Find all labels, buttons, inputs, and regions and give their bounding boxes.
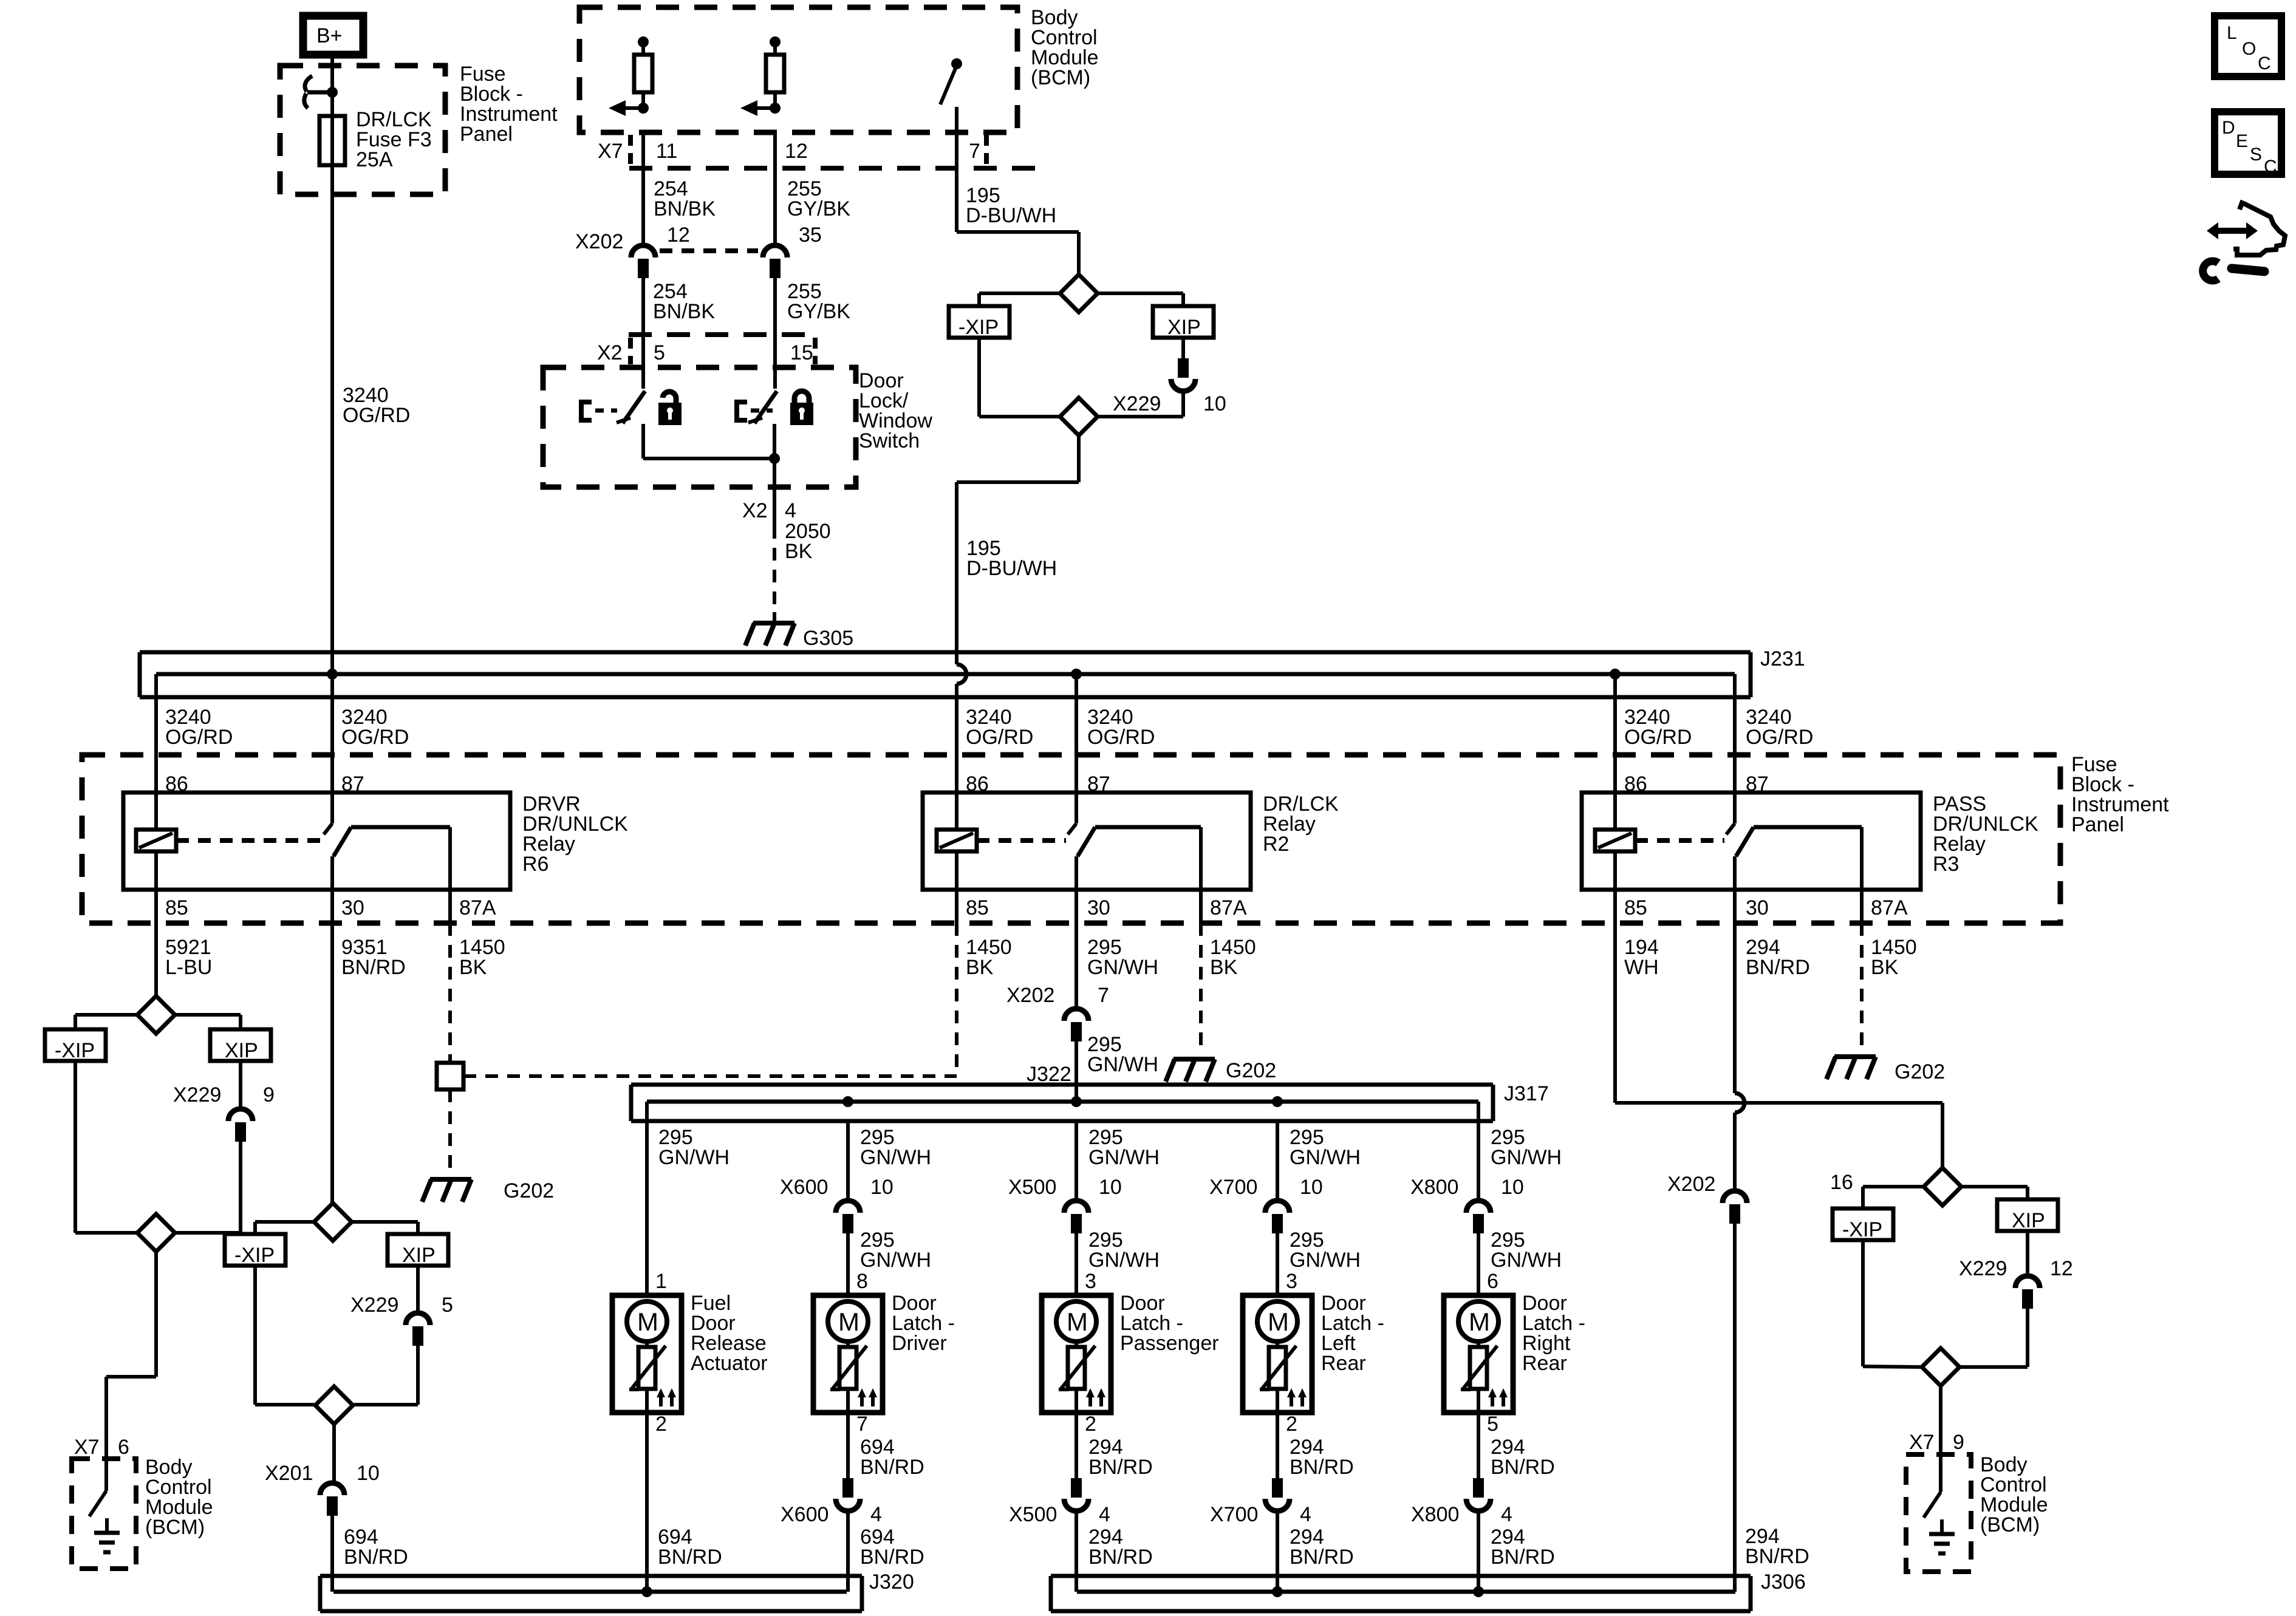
svg-text:BN/BK: BN/BK (653, 300, 715, 323)
svg-text:R6: R6 (522, 853, 548, 876)
door latch passenger name (1120, 1292, 1219, 1355)
fuse block top dashed box (280, 66, 445, 194)
wire 3240 to R3-86 (1613, 674, 1617, 793)
wire label 694 BN/RD (door latch driver lower) (860, 1526, 924, 1569)
wire label 255 GY/BK (lower) (787, 280, 850, 323)
svg-text:S: S (2250, 145, 2262, 165)
svg-text:10: 10 (1203, 392, 1226, 415)
svg-text:10: 10 (1099, 1176, 1122, 1199)
svg-text:D-BU/WH: D-BU/WH (966, 557, 1057, 580)
label Body Control Module (BCM) bottom-left (145, 1456, 213, 1539)
fuse block main dashed box (82, 755, 2060, 923)
svg-text:15: 15 (790, 341, 813, 364)
wire label 1450 BK (R6 87A) (459, 936, 505, 979)
relay R2 contact (1068, 793, 1201, 890)
fuse holder clip symbol (304, 76, 328, 108)
wire 254 BN/BK (BCM 11 to X202 12) (641, 132, 645, 244)
fuel door release actuator PTC element (629, 1342, 666, 1413)
hop of 195 wire over J231 conductor (957, 664, 966, 684)
junction dot J317 X700 (1272, 1096, 1283, 1107)
svg-text:GN/WH: GN/WH (1491, 1249, 1562, 1272)
wire label 294 BN/RD (door latch right rear) (1491, 1436, 1555, 1479)
connector X229 pin 9 (173, 1083, 275, 1142)
XIP box (circuit4) (1997, 1199, 2058, 1232)
wire 195 D-BU/WH from BCM 7 (955, 132, 958, 232)
J320 internal bus conductor (333, 1590, 847, 1594)
wire to -XIP (circuit3) (979, 293, 1060, 306)
wire X229 10 to lower diamond (1098, 392, 1183, 417)
svg-text:1: 1 (655, 1270, 667, 1293)
door latch passenger box (1042, 1295, 1111, 1413)
svg-text:4: 4 (870, 1503, 882, 1526)
pin labels 85 30 87A R2 (966, 896, 1247, 919)
connector X201 pin 10 (265, 1462, 380, 1516)
-XIP box (circuit1) (45, 1029, 106, 1062)
svg-text:BN/RD: BN/RD (1088, 1456, 1153, 1479)
wire 295 GN/WH X800 to door latch right rear (1477, 1233, 1480, 1295)
label Body Control Module (BCM) bottom-right (1980, 1453, 2048, 1536)
svg-text:X7: X7 (74, 1436, 100, 1459)
svg-text:BN/RD: BN/RD (1290, 1456, 1354, 1479)
fuel door release actuator box (612, 1295, 682, 1413)
wire label 294 BN/RD (door latch right rear lower) (1491, 1526, 1555, 1569)
svg-text:XIP: XIP (402, 1244, 436, 1267)
label J306 (1761, 1570, 1806, 1594)
svg-text:-XIP: -XIP (958, 316, 999, 339)
svg-text:BN/RD: BN/RD (860, 1456, 924, 1479)
wire 295 GN/WH R2-30 down (1075, 890, 1078, 1007)
svg-text:GN/WH: GN/WH (1087, 956, 1158, 979)
svg-text:BK: BK (785, 540, 813, 563)
wire label 295 GN/WH (door latch driver mid) (860, 1229, 931, 1272)
wire 295 GN/WH J317 to X700 10 (1276, 1121, 1279, 1199)
inline connector diamond (195 upper) (1060, 274, 1098, 312)
label J322 (1027, 1063, 1071, 1086)
inline connector diamond (195 lower) (1060, 398, 1098, 435)
svg-text:4: 4 (1501, 1503, 1512, 1526)
wire label 195 D-BU/WH (lower) (966, 537, 1057, 580)
svg-text:BK: BK (1210, 956, 1238, 979)
wire 1450 BK R6-87A dashed (448, 890, 452, 1063)
connector X600 pin 4 (781, 1478, 882, 1526)
svg-text:M: M (838, 1307, 859, 1336)
label Fuse Block - Instrument Panel (right) (2071, 753, 2169, 836)
Body Control Module (BCM) top dashed box (579, 7, 1017, 132)
svg-text:C: C (2258, 53, 2271, 73)
wire 295 GN/WH X202-7 to J317 (1075, 1042, 1078, 1102)
wire 694 BN/RD X600 to bus (846, 1513, 850, 1592)
svg-text:X229: X229 (1113, 392, 1161, 415)
svg-text:X229: X229 (350, 1294, 398, 1317)
junction square 1450 BK (437, 1063, 463, 1089)
wire label 294 BN/RD (door latch passenger) (1088, 1436, 1153, 1479)
svg-text:12: 12 (2050, 1257, 2073, 1280)
svg-text:BK: BK (1871, 956, 1899, 979)
svg-text:(BCM): (BCM) (145, 1516, 205, 1539)
relay R3 contact (1726, 793, 1862, 890)
switch unlock contact bracket (581, 400, 617, 423)
svg-text:GY/BK: GY/BK (787, 197, 850, 220)
label Body Control Module (BCM) top (1031, 6, 1099, 89)
svg-text:OG/RD: OG/RD (966, 726, 1033, 749)
wire label 254 BN/BK (lower) (653, 280, 715, 323)
wire 195 D-BU/WH jog right (957, 232, 1079, 274)
svg-text:6: 6 (118, 1436, 129, 1459)
svg-text:(BCM): (BCM) (1980, 1513, 2040, 1536)
svg-text:87: 87 (341, 772, 364, 796)
connector X7 pin 6 row (74, 1436, 129, 1459)
wire 9351 BN/RD R6-30 down (330, 890, 334, 1203)
wire to -XIP (circuit2) (255, 1222, 314, 1234)
svg-text:Actuator: Actuator (691, 1352, 768, 1375)
icon wrench (2203, 261, 2264, 281)
icon DESC box (2215, 112, 2281, 177)
svg-text:7: 7 (856, 1413, 868, 1436)
svg-text:BN/RD: BN/RD (1745, 1545, 1809, 1568)
door latch driver pin labels (856, 1270, 868, 1436)
wire 294 BN/RD door latch left rear to X700 4 (1276, 1413, 1279, 1479)
wire to -XIP (circuit1) (75, 1015, 137, 1029)
ground G202 (middle) (1166, 1059, 1276, 1082)
svg-text:M: M (1469, 1307, 1490, 1336)
svg-text:J320: J320 (869, 1570, 914, 1594)
svg-text:87: 87 (1746, 772, 1769, 796)
svg-text:J231: J231 (1760, 647, 1805, 670)
fuel door release actuator arrows (657, 1388, 676, 1406)
svg-text:-XIP: -XIP (234, 1244, 275, 1267)
wire label 295 GN/WH (door latch left rear upper) (1290, 1126, 1361, 1169)
label Fuse Block - Instrument Panel (top) (460, 63, 558, 146)
inline connector diamond (9351 lower) (315, 1386, 353, 1424)
wire -XIP to lower diamond (circuit2) (255, 1266, 314, 1405)
wire to BCM X7-9 (1939, 1386, 1942, 1454)
BCM internal switch (pin 7) (940, 58, 962, 132)
switch lock arm (748, 391, 777, 423)
battery terminal B+ (303, 16, 363, 55)
svg-text:X229: X229 (173, 1083, 221, 1106)
wire 3240 OG/RD from B+ through fuse to J231 (330, 58, 334, 793)
inline connector diamond (5921 lower) (137, 1214, 175, 1252)
svg-text:2: 2 (1085, 1413, 1096, 1436)
XIP box (circuit2) (388, 1234, 448, 1267)
door latch left rear pin labels (1286, 1270, 1297, 1436)
svg-text:BN/RD: BN/RD (1088, 1546, 1153, 1569)
BCM output arrow 1 (609, 100, 649, 116)
svg-text:R2: R2 (1263, 833, 1289, 856)
svg-text:OG/RD: OG/RD (1087, 726, 1155, 749)
svg-text:87A: 87A (459, 896, 496, 919)
relay R2 coil (937, 793, 1066, 890)
wire 294 BN/RD X700 to bus (1276, 1513, 1279, 1592)
wire to -XIP (circuit4) (1863, 1187, 1924, 1209)
wire XIP to X229 5 (416, 1266, 420, 1312)
svg-text:25A: 25A (356, 148, 393, 171)
pin labels 85 30 87A R3 (1624, 896, 1908, 919)
junction dot J231 feed (327, 669, 338, 680)
svg-text:GN/WH: GN/WH (860, 1146, 931, 1169)
svg-text:-XIP: -XIP (55, 1039, 95, 1062)
svg-text:X202: X202 (1667, 1173, 1715, 1196)
svg-text:Passenger: Passenger (1120, 1332, 1219, 1355)
wire 694 BN/RD X201 to J320 (330, 1516, 334, 1592)
svg-text:C: C (2264, 157, 2277, 177)
wire label 694 BN/RD (X201) (344, 1526, 408, 1569)
svg-text:G202: G202 (504, 1179, 554, 1202)
svg-text:G202: G202 (1226, 1059, 1276, 1082)
svg-text:9: 9 (263, 1083, 275, 1106)
pin labels 86 87 R2 (966, 772, 1110, 796)
svg-text:X600: X600 (780, 1176, 828, 1199)
svg-text:XIP: XIP (1167, 316, 1201, 339)
svg-text:8: 8 (856, 1270, 868, 1293)
wire label 295 GN/WH (door latch driver upper) (860, 1126, 931, 1169)
svg-text:(BCM): (BCM) (1031, 66, 1090, 89)
wire to XIP (circuit1) (175, 1015, 241, 1029)
connector X600 pin 10 (780, 1176, 893, 1233)
svg-text:X700: X700 (1210, 1503, 1258, 1526)
svg-text:10: 10 (357, 1462, 380, 1485)
svg-text:7: 7 (1098, 984, 1109, 1007)
wire label 3240 OG/RD (feed) (343, 384, 410, 427)
wire labels 3240 OG/RD R3 (1624, 706, 1813, 749)
wire 294 BN/RD door latch passenger to X500 4 (1075, 1413, 1078, 1479)
svg-text:OG/RD: OG/RD (1746, 726, 1813, 749)
svg-text:X800: X800 (1411, 1503, 1459, 1526)
wire label 294 BN/RD (door latch left rear) (1290, 1436, 1354, 1479)
wire to XIP (circuit2) (352, 1222, 418, 1234)
svg-text:7: 7 (969, 140, 980, 163)
fuel door release actuator pin labels (655, 1270, 667, 1436)
svg-text:35: 35 (799, 223, 822, 247)
label J231 (1760, 647, 1805, 670)
svg-text:BN/RD: BN/RD (1290, 1546, 1354, 1569)
relay R3 box (1582, 793, 1921, 890)
wire label 295 GN/WH (X202-7 lower) (1087, 1033, 1158, 1076)
wire -XIP to lower diamond (circuit1) (75, 1061, 137, 1233)
BCM bottom-right switch (1924, 1454, 1941, 1518)
ground G305 (745, 623, 853, 650)
svg-text:BN/RD: BN/RD (860, 1546, 924, 1569)
wire 694 BN/RD fuel door to J320 (645, 1413, 649, 1592)
svg-text:6: 6 (1487, 1270, 1498, 1293)
connector X800 pin 4 (1411, 1478, 1512, 1526)
connector X700 pin 4 (1210, 1478, 1311, 1526)
svg-text:4: 4 (1300, 1503, 1311, 1526)
wire 295 GN/WH X700 to door latch left rear (1276, 1233, 1279, 1295)
wire label 294 BN/RD (bottom right) (1745, 1525, 1809, 1568)
relay R6 box (123, 793, 510, 890)
connector X229 pin 12 (1959, 1257, 2073, 1309)
wire label 195 D-BU/WH (upper) (966, 184, 1056, 227)
svg-text:BN/RD: BN/RD (1746, 956, 1810, 979)
svg-text:E: E (2236, 131, 2248, 151)
wire 294 BN/RD X500 to bus (1075, 1513, 1078, 1592)
wire label 9351 BN/RD (341, 936, 406, 979)
svg-text:J306: J306 (1761, 1570, 1806, 1594)
BCM internal resistor 2 (766, 36, 784, 108)
connector X229 pin 5 (350, 1294, 453, 1346)
wire 694 BN/RD door latch driver to X600 4 (846, 1413, 850, 1479)
svg-text:M: M (1268, 1307, 1289, 1336)
junction dot J306 X800 (1473, 1586, 1484, 1597)
hop of 294 wire over 194 wire (1735, 1093, 1744, 1113)
door latch right rear pin labels (1487, 1270, 1498, 1436)
svg-text:R3: R3 (1933, 853, 1959, 876)
svg-text:BN/RD: BN/RD (658, 1546, 722, 1569)
junction dot at fuse clip (327, 87, 338, 98)
splice pack J320 box (320, 1576, 862, 1611)
label J320 (869, 1570, 914, 1594)
svg-text:X229: X229 (1959, 1257, 2007, 1280)
svg-text:4: 4 (785, 499, 796, 522)
ground G202 (right) (1826, 1057, 1945, 1083)
wire label 295 GN/WH (door latch right rear upper) (1491, 1126, 1562, 1169)
door latch driver motor M (828, 1301, 868, 1342)
svg-text:BK: BK (459, 956, 487, 979)
svg-text:X7: X7 (598, 140, 623, 163)
svg-text:GN/WH: GN/WH (1087, 1053, 1158, 1076)
svg-text:85: 85 (1624, 896, 1647, 919)
wire label 295 GN/WH (fuel door) (658, 1126, 729, 1169)
svg-text:G202: G202 (1895, 1060, 1945, 1083)
door latch right rear PTC element (1461, 1342, 1497, 1413)
splice pack J231 box (140, 652, 1751, 697)
fuel door release actuator motor M (627, 1301, 667, 1342)
door latch right rear name (1522, 1292, 1585, 1375)
svg-text:O: O (2242, 39, 2256, 59)
door latch driver arrows (858, 1388, 877, 1406)
svg-text:XIP: XIP (2012, 1209, 2045, 1232)
svg-text:D-BU/WH: D-BU/WH (966, 204, 1056, 227)
door latch left rear name (1321, 1292, 1384, 1375)
svg-text:J322: J322 (1027, 1063, 1071, 1086)
fuel door release actuator name (691, 1292, 768, 1375)
wire to BCM X7-6 (106, 1252, 156, 1459)
label DR/LCK Fuse F3 25A (356, 108, 432, 171)
wire 3240 to R2-87 (1075, 674, 1078, 793)
svg-text:J317: J317 (1504, 1082, 1549, 1105)
wire labels 3240 OG/RD R2 (966, 706, 1155, 749)
relay R6 coil (136, 793, 322, 890)
wire 294 BN/RD R3-30 down (1733, 890, 1737, 1190)
svg-text:X202: X202 (575, 230, 623, 253)
wire square to G202 (448, 1089, 452, 1176)
wire -XIP to lower diamond (circuit3) (979, 338, 1060, 417)
wire 254 BN/BK (X202 to switch 5) (641, 277, 645, 389)
switch output wires to common (643, 424, 774, 459)
svg-text:L: L (2227, 23, 2237, 43)
connector X202 (294 BN/RD) (1667, 1173, 1747, 1224)
door latch passenger motor M (1056, 1301, 1096, 1342)
splice pack J306 box (1051, 1576, 1751, 1611)
inline connector diamond (194 upper) (1924, 1168, 1961, 1205)
wire XIP to X229 9 (239, 1061, 242, 1109)
svg-text:G305: G305 (803, 627, 853, 650)
ground G202 (left) (422, 1179, 554, 1202)
junction dot switch common (769, 453, 780, 464)
wire 255 GY/BK (X202 to switch 15) (773, 277, 777, 389)
BCM output arrow 2 (740, 100, 781, 116)
BCM bottom-left ground (94, 1518, 120, 1552)
wire label 295 GN/WH (door latch passenger upper) (1088, 1126, 1160, 1169)
svg-text:Panel: Panel (2071, 813, 2124, 836)
svg-text:10: 10 (1501, 1176, 1524, 1199)
door latch left rear PTC element (1260, 1342, 1296, 1413)
svg-text:5: 5 (1487, 1413, 1498, 1436)
svg-text:OG/RD: OG/RD (165, 726, 233, 749)
wire 1450 BK R2-87A dashed (1199, 890, 1203, 1054)
svg-text:GN/WH: GN/WH (1290, 1146, 1361, 1169)
connector X202 pin 12 (575, 223, 690, 278)
switch unlock arm (617, 391, 645, 423)
label J317 (1504, 1082, 1549, 1105)
svg-text:9: 9 (1953, 1431, 1964, 1454)
pin labels 85 30 87A R6 (165, 896, 496, 919)
switch lock contact bracket (737, 400, 773, 423)
wire X229 12 to lower diamond (1959, 1309, 2028, 1367)
svg-text:Panel: Panel (460, 123, 513, 146)
icon LOC box (2215, 16, 2281, 77)
connector X700 pin 10 (1209, 1176, 1323, 1233)
connector X202 pin 35 (763, 223, 822, 278)
connector X2 pin 4 row (742, 499, 796, 522)
door latch driver name (892, 1292, 955, 1355)
J306 internal bus conductor (1077, 1590, 1735, 1594)
wire 294 BN/RD X800 to bus (1477, 1513, 1480, 1592)
door latch left rear box (1243, 1295, 1312, 1413)
locked padlock icon (790, 391, 813, 425)
splice pack J317 box (631, 1085, 1493, 1121)
svg-text:OG/RD: OG/RD (341, 726, 409, 749)
door latch right rear box (1444, 1295, 1513, 1413)
wire label 1450 BK (R2 85) (966, 936, 1012, 979)
BCM bottom-right dashed box (1906, 1454, 1971, 1572)
svg-text:86: 86 (966, 772, 989, 796)
door latch driver PTC element (830, 1342, 867, 1413)
svg-text:OG/RD: OG/RD (1624, 726, 1692, 749)
svg-text:86: 86 (1624, 772, 1647, 796)
wire 295 GN/WH J317 to X800 10 (1477, 1121, 1480, 1199)
svg-text:85: 85 (966, 896, 989, 919)
svg-text:Switch: Switch (859, 429, 920, 452)
svg-text:OG/RD: OG/RD (343, 404, 410, 427)
XIP box (circuit3) (1153, 306, 1214, 339)
svg-text:2: 2 (1286, 1413, 1297, 1436)
pin labels 86 87 R6 (165, 772, 364, 796)
svg-text:BN/RD: BN/RD (344, 1546, 408, 1569)
wire 194 WH R3-85 to XIP diamond (1615, 890, 1942, 1168)
svg-text:Rear: Rear (1522, 1352, 1567, 1375)
wire label 694 BN/RD (door latch driver) (860, 1436, 924, 1479)
svg-text:-XIP: -XIP (1842, 1218, 1882, 1241)
-XIP box (circuit3) (949, 306, 1010, 339)
inline connector diamond (5921 upper) (137, 996, 175, 1034)
svg-text:30: 30 (1746, 896, 1769, 919)
svg-text:16: 16 (1830, 1171, 1853, 1194)
icon vehicle outline (2233, 203, 2285, 255)
-XIP box (circuit4) (1833, 1209, 1893, 1241)
wire R2-85 solid stub (955, 890, 958, 923)
relay R3 name (1933, 793, 2038, 876)
fuse F3 element (319, 116, 345, 165)
wire X229 9 to lower diamond (175, 1142, 241, 1233)
wire label 294 BN/RD (door latch left rear lower) (1290, 1526, 1354, 1569)
wire label 255 GY/BK (upper) (787, 177, 850, 220)
wire X229 5 to lower diamond (354, 1346, 418, 1405)
wire label 2050 BK (785, 520, 831, 563)
svg-text:X2: X2 (597, 341, 623, 364)
door latch passenger PTC element (1059, 1342, 1095, 1413)
